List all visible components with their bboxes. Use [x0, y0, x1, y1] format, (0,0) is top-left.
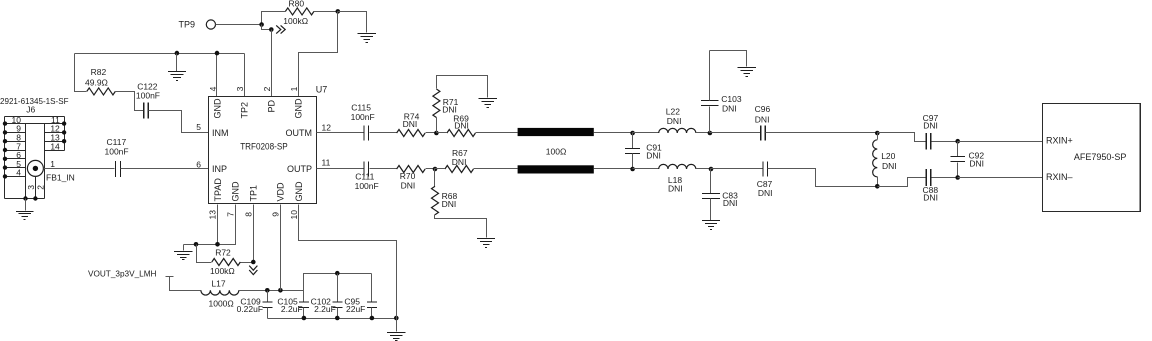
svg-text:13: 13 [208, 210, 218, 220]
svg-text:OUTM: OUTM [286, 128, 313, 138]
wire node up to R80 lead [262, 12, 286, 25]
node junction R72 tap [194, 242, 199, 247]
svg-text:DNI: DNI [882, 161, 897, 171]
transmission line bottom bar [518, 165, 594, 173]
wire C117 to pin 6 INP [121, 168, 209, 170]
wire FB1_IN to C117 [44, 168, 115, 170]
svg-text:1000Ω: 1000Ω [209, 299, 234, 309]
resistor R71 DNI (vertical) [433, 89, 459, 133]
wire TP9 to node [216, 24, 262, 26]
svg-text:VDD: VDD [276, 182, 286, 202]
svg-text:TRF0208-SP: TRF0208-SP [240, 142, 288, 152]
svg-text:C117: C117 [107, 137, 127, 147]
wire pin 8 TP1 down [253, 205, 255, 263]
svg-text:0.22uF: 0.22uF [237, 304, 263, 314]
capacitor C103 DNI (to ground above) [701, 51, 742, 133]
inductor L18 DNI [659, 164, 696, 193]
svg-text:DNI: DNI [923, 121, 938, 131]
node junction TP1 [251, 260, 256, 265]
svg-text:DNI: DNI [646, 151, 661, 161]
svg-text:R80: R80 [289, 0, 305, 9]
svg-text:TPAD: TPAD [213, 178, 223, 202]
capacitor C92 DNI (shunt) [950, 142, 984, 178]
capacitor C111 [355, 161, 379, 191]
wire R71 top to ground [437, 76, 488, 98]
svg-text:4: 4 [208, 86, 218, 91]
connector J6 coax center circle [27, 160, 43, 176]
svg-text:100kΩ: 100kΩ [210, 266, 235, 276]
wire C103 top to ground [710, 51, 747, 67]
wire bottom bar to C91 node [594, 168, 633, 170]
svg-text:GND: GND [293, 98, 303, 119]
resistor R69 DNI [437, 113, 476, 136]
wire pin 4 [216, 54, 218, 97]
svg-text:DNI: DNI [723, 198, 738, 208]
node junction PD branch [269, 27, 274, 32]
wire R70 to node [426, 168, 435, 170]
svg-text:1: 1 [50, 159, 55, 169]
resistor R80 [283, 0, 314, 26]
svg-text:1: 1 [289, 86, 299, 91]
wire R82 to C122 [116, 92, 144, 111]
node junction TP9/R80/PD [259, 22, 264, 27]
svg-text:9: 9 [271, 212, 281, 217]
wire ground stem [176, 54, 178, 72]
wire pin 3 [244, 54, 246, 97]
wire R80 node to top ground [338, 12, 367, 33]
wire L18 to C83 node [696, 168, 711, 170]
wire L17 to VDD rail [239, 290, 304, 292]
node junction R80 right [336, 9, 341, 14]
svg-text:2.2uF: 2.2uF [314, 304, 336, 314]
connector J6 right shield pin dots [62, 121, 66, 143]
resistor R82 [85, 67, 115, 95]
capacitor C115 [351, 102, 375, 140]
IC AFE7950-SP body [1043, 104, 1141, 212]
svg-text:11: 11 [322, 157, 331, 167]
off-page connector chevron right [276, 25, 285, 33]
wire PD branch down to pin 2 [271, 30, 273, 97]
wire ground rail down to R82 [75, 54, 87, 92]
svg-text:GND: GND [212, 98, 222, 119]
capacitor C91 DNI (shunt) [625, 133, 662, 169]
transmission line top bar [518, 128, 594, 136]
capacitor C117 [105, 137, 129, 177]
svg-text:DNI: DNI [722, 103, 737, 113]
resistor R67 DNI [435, 148, 474, 173]
node junction OUTM / R71 [434, 131, 439, 136]
svg-text:INP: INP [212, 164, 227, 174]
wire C122 to pin 5 INM [149, 111, 209, 133]
svg-text:5: 5 [196, 122, 201, 132]
svg-text:DNI: DNI [442, 199, 457, 209]
connector J6 left pin numbers 10-4 [12, 115, 22, 178]
svg-text:3: 3 [235, 86, 245, 91]
svg-text:DNI: DNI [668, 183, 683, 193]
capacitor C97 DNI [923, 113, 939, 150]
svg-text:DNI: DNI [969, 158, 984, 168]
off-page connector chevron down [249, 266, 257, 275]
svg-text:C111: C111 [355, 171, 374, 181]
svg-text:R82: R82 [91, 67, 107, 77]
node junction pin 13 [215, 242, 220, 247]
wire VOUT tap down to rail [170, 277, 201, 291]
svg-text:GND: GND [231, 181, 241, 202]
wire C83 node to C87 [711, 168, 763, 170]
wire C88 to C92 node [932, 177, 958, 179]
svg-text:100nF: 100nF [136, 91, 160, 101]
svg-text:14: 14 [50, 141, 60, 151]
wire R74 to node [426, 132, 437, 134]
node junction C105 bottom [302, 316, 307, 321]
svg-text:DNI: DNI [401, 181, 416, 191]
svg-text:100Ω: 100Ω [546, 147, 567, 157]
svg-text:PD: PD [266, 99, 276, 112]
svg-text:DNI: DNI [758, 188, 773, 198]
node junction L20 bottom [875, 184, 880, 189]
svg-text:INM: INM [212, 128, 229, 138]
wire pin 7 GND down [184, 205, 236, 245]
net label tap bar [166, 276, 174, 278]
svg-text:DNI: DNI [452, 157, 467, 167]
capacitor C102 [311, 274, 343, 319]
capacitor C122 [136, 82, 160, 119]
node junction OUTP / R68 [433, 167, 438, 172]
wire R72 to pin 8 node [241, 262, 254, 264]
svg-text:8: 8 [243, 212, 253, 217]
ground below J6 [16, 212, 34, 220]
svg-text:TP9: TP9 [179, 20, 196, 30]
node junction C91 top [630, 131, 635, 136]
capacitor C109 [237, 291, 273, 319]
wire C92 node to RXIN- [958, 177, 1043, 179]
node junction C109 top [265, 288, 270, 293]
wire C91 node to L22 [633, 132, 659, 134]
wire pin 11 OUTP to C111 [317, 168, 364, 170]
capacitor C95 [344, 274, 377, 319]
connector J6 body outline [5, 117, 65, 199]
svg-text:AFE7950-SP: AFE7950-SP [1074, 152, 1127, 162]
svg-text:DNI: DNI [755, 114, 770, 124]
wire upper distribution to C102 C95 [304, 274, 372, 291]
svg-text:100kΩ: 100kΩ [283, 16, 308, 26]
node junction VDD pin 9 [278, 288, 283, 293]
wire R80 right to node [314, 11, 338, 13]
wire pin 10 GND right and down [299, 205, 397, 332]
node junction C102 upper [335, 271, 340, 276]
capacitor C87 DNI [757, 161, 773, 198]
wire R67 to transmission line [474, 168, 518, 170]
wire L20 node to C97 [878, 133, 926, 142]
wire R68 bottom to ground [435, 215, 487, 238]
wire C97 to C92 node [932, 141, 958, 143]
capacitor C88 DNI [923, 169, 939, 202]
wire R69 to transmission line [476, 132, 518, 134]
svg-text:L22: L22 [666, 106, 680, 116]
wire C96 to L20 node [766, 132, 878, 134]
node junction pin 4 [215, 51, 220, 56]
node junction C95 bottom [370, 316, 375, 321]
node junction C103 [708, 131, 713, 136]
svg-text:RXIN–: RXIN– [1046, 172, 1073, 182]
wire to ground below left [183, 245, 185, 251]
connector J6 right pin numbers 11-14 [50, 115, 60, 151]
capacitor C105 [277, 291, 309, 319]
ground on y53 rail [168, 72, 186, 81]
svg-text:4: 4 [16, 168, 21, 178]
wire C111 to R70 [370, 168, 397, 170]
wire ground rail y53 to pins 4 and 3 [75, 53, 245, 55]
resistor R74 DNI [397, 112, 426, 137]
node junction ground rail right [394, 316, 399, 321]
svg-text:100nF: 100nF [105, 147, 129, 157]
inductor L20 DNI (vertical shunt) [873, 133, 897, 187]
node junction pin 2 at bottom edge [33, 196, 37, 200]
svg-text:DNI: DNI [403, 119, 418, 129]
svg-text:TP1: TP1 [248, 185, 258, 202]
test point TP9 [179, 20, 216, 30]
svg-text:2.2uF: 2.2uF [281, 304, 303, 314]
wire pin 9 VDD down [280, 205, 282, 291]
svg-text:7: 7 [226, 212, 236, 217]
ground for C103 [738, 68, 756, 77]
svg-text:R70: R70 [400, 171, 416, 181]
svg-text:10: 10 [289, 210, 299, 220]
svg-text:DNI: DNI [923, 193, 938, 203]
node junction L20 top [875, 131, 880, 136]
wire pin 12 OUTM to C115 [317, 132, 364, 134]
svg-text:2: 2 [262, 86, 272, 91]
svg-text:22uF: 22uF [346, 304, 365, 314]
ground top right of R80 [358, 34, 376, 43]
op-amp U7 TRF0208-SP body [209, 97, 317, 204]
wire top bar to C91 node [594, 132, 633, 134]
capacitor C96 DNI [755, 104, 771, 141]
wire C87 to L20 node (jog down) [768, 169, 878, 187]
wire L22 to C103 node [696, 132, 710, 134]
wire J6 ground stem [25, 199, 27, 211]
svg-text:DNI: DNI [667, 116, 682, 126]
svg-text:12: 12 [322, 122, 332, 132]
ground for C83 [702, 221, 720, 230]
resistor R72 [197, 245, 241, 277]
svg-text:GND: GND [294, 181, 304, 202]
node junction C83 [709, 167, 714, 172]
inductor L22 DNI [659, 106, 696, 133]
svg-text:TP2: TP2 [239, 102, 249, 119]
ground for R71 [479, 99, 497, 108]
wire C91 node to L18 [633, 168, 659, 170]
wire node down to PD branch [262, 25, 272, 30]
svg-text:49.9Ω: 49.9Ω [85, 78, 108, 88]
svg-text:2: 2 [36, 185, 46, 190]
resistor R68 DNI (vertical) [432, 169, 458, 215]
node junction pin 3 at bottom edge [23, 196, 27, 200]
svg-text:R72: R72 [215, 248, 231, 258]
wire pin 13 TPAD down [217, 205, 219, 245]
ground for pins 13/7 [174, 252, 192, 260]
wire C92 node to RXIN+ [958, 141, 1043, 143]
resistor R70 DNI [397, 166, 426, 191]
wire C103 node to C96 [710, 132, 761, 134]
inductor L17 [201, 279, 239, 309]
wire L20 node to C88 (jog up) [878, 178, 926, 187]
svg-text:C103: C103 [721, 94, 742, 104]
svg-text:L20: L20 [881, 151, 895, 161]
node junction C91 bottom [630, 167, 635, 172]
connector J6 coax center dot [33, 166, 38, 171]
svg-text:DNI: DNI [454, 121, 469, 131]
node junction C92 top [955, 139, 960, 144]
ground bottom right [387, 333, 405, 341]
svg-text:RXIN+: RXIN+ [1046, 136, 1073, 146]
svg-text:6: 6 [196, 159, 201, 169]
svg-text:U7: U7 [316, 85, 328, 95]
node junction C92 bottom [955, 175, 960, 180]
svg-text:OUTP: OUTP [287, 164, 312, 174]
capacitor C83 DNI (shunt to ground) [702, 169, 738, 221]
svg-text:VOUT_3p3V_LMH: VOUT_3p3V_LMH [88, 268, 157, 278]
svg-text:J6: J6 [26, 104, 35, 114]
node junction C102 bottom [335, 316, 340, 321]
wire bottom ground rail [268, 318, 397, 320]
ground for R68 [477, 239, 495, 248]
svg-text:C96: C96 [755, 104, 771, 114]
wire R80 node down to pin 1 [299, 12, 338, 97]
svg-text:L17: L17 [211, 279, 225, 289]
svg-text:100nF: 100nF [355, 181, 379, 191]
node junction ground tap [175, 51, 180, 56]
svg-text:FB1_IN: FB1_IN [46, 172, 75, 182]
svg-text:100nF: 100nF [351, 112, 375, 122]
connector J6 left shield pin dots [3, 121, 7, 178]
connector J6 pin 2 stub [34, 176, 36, 198]
wire C115 to R74 [370, 132, 397, 134]
